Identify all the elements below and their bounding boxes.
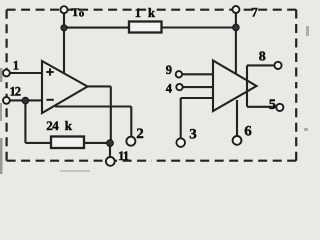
svg-text:5: 5 (269, 97, 276, 113)
svg-text:k: k (148, 6, 155, 20)
svg-text:12: 12 (10, 84, 21, 98)
svg-text:2: 2 (136, 126, 144, 142)
svg-text:k: k (65, 118, 73, 133)
svg-text:24: 24 (46, 118, 59, 133)
svg-text:11: 11 (118, 148, 129, 163)
svg-text:1: 1 (135, 6, 141, 20)
svg-text:4: 4 (166, 81, 173, 95)
svg-text:8: 8 (259, 49, 266, 64)
svg-text:9: 9 (166, 63, 172, 77)
svg-text:7: 7 (251, 5, 258, 20)
svg-text:o: o (79, 8, 85, 20)
svg-text:1: 1 (13, 59, 19, 73)
svg-text:6: 6 (244, 123, 252, 139)
svg-text:3: 3 (189, 126, 197, 142)
